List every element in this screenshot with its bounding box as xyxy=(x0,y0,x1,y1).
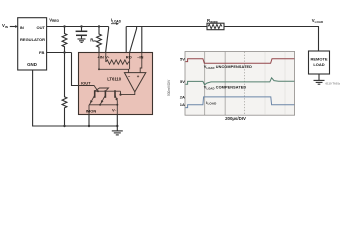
regulator box xyxy=(18,18,47,70)
svg-text:1A: 1A xyxy=(180,102,185,107)
svg-text:GND: GND xyxy=(27,62,37,67)
junction dots on VREG net xyxy=(63,25,118,127)
junction dot +IN internal xyxy=(98,68,100,70)
svg-text:5V: 5V xyxy=(180,57,185,62)
resistor RIN xyxy=(97,27,102,53)
svg-text:VLOAD: VLOAD xyxy=(312,18,324,24)
wire slant to V+ pin xyxy=(106,27,109,53)
scope grid lines xyxy=(205,52,225,115)
svg-text:500mV/DIV: 500mV/DIV xyxy=(167,79,171,96)
ground (earth) below remote load xyxy=(314,80,325,84)
svg-text:VREG: VREG xyxy=(49,17,59,23)
internal emitter rail to V- and IMON xyxy=(89,101,117,115)
transistor Q1 xyxy=(89,90,94,105)
svg-text:VIN: VIN xyxy=(2,23,8,29)
svg-text:200µs/DIV: 200µs/DIV xyxy=(225,116,246,121)
node VIN input arrow xyxy=(10,25,18,28)
resistor R1 feedback top xyxy=(62,27,67,53)
wire FB to IOUT pin xyxy=(72,53,79,86)
internal amp input wires xyxy=(99,53,142,73)
svg-text:V+: V+ xyxy=(105,55,110,60)
internal junction dots xyxy=(97,90,122,106)
wire slant sense tap to RO side xyxy=(130,27,137,53)
remote load box xyxy=(309,51,330,74)
trace ILOAD (blue) xyxy=(185,97,294,108)
svg-text:LOAD: LOAD xyxy=(313,62,324,67)
transistor mirror top wire xyxy=(95,90,121,92)
svg-text:REGULATOR: REGULATOR xyxy=(20,37,45,42)
wire drop to RO pin xyxy=(125,27,127,53)
ILOAD current arrow xyxy=(111,22,119,25)
wire V- pin to ground xyxy=(116,115,118,131)
trace VLOAD uncompensated (red) xyxy=(185,59,294,64)
wire regulator GND down xyxy=(33,70,118,126)
internal sense resistor V+ to RO xyxy=(106,53,130,70)
svg-text:ILOAD: ILOAD xyxy=(206,101,217,106)
svg-text:OUT: OUT xyxy=(37,25,46,30)
svg-text:IOUT: IOUT xyxy=(81,80,91,85)
ground (main) below V- xyxy=(112,131,123,135)
base bridge wire xyxy=(96,88,109,91)
ground below C1 xyxy=(78,39,86,42)
resistor RWIRE (boxed) xyxy=(207,23,224,30)
op-amp triangle A1 xyxy=(124,73,145,92)
svg-text:–IN: –IN xyxy=(137,55,143,60)
transistor Q2 xyxy=(100,90,105,105)
wire FB from regulator xyxy=(47,52,72,54)
wire VLOAD top run xyxy=(126,27,318,52)
svg-text:5V: 5V xyxy=(180,79,185,84)
svg-text:6110 TA01a: 6110 TA01a xyxy=(326,82,340,86)
svg-text:RIN: RIN xyxy=(90,37,96,43)
wire remote load to ground xyxy=(318,74,320,80)
svg-text:RWIRE: RWIRE xyxy=(207,18,218,24)
svg-text:LT6110: LT6110 xyxy=(107,76,122,81)
transistor Q3 xyxy=(115,90,118,101)
scope axis labels xyxy=(180,57,185,107)
resistor R2 feedback bottom xyxy=(62,53,67,127)
svg-text:+: + xyxy=(137,74,140,79)
wire IMON pin to ground rail xyxy=(88,115,90,127)
IOUT pin wire into transistor Q1 xyxy=(79,86,99,92)
svg-text:V–: V– xyxy=(112,108,117,113)
capacitor C1 xyxy=(76,27,88,39)
svg-text:FB: FB xyxy=(39,50,44,55)
svg-text:IMON: IMON xyxy=(86,109,97,114)
scope background xyxy=(185,52,295,116)
wire VREG out (top net) xyxy=(47,26,109,28)
scope trace labels xyxy=(204,65,252,105)
svg-text:RO: RO xyxy=(126,55,132,60)
oscilloscope screenshot xyxy=(167,52,295,122)
svg-text:+IN: +IN xyxy=(97,55,103,60)
IC pin and internal labels xyxy=(81,55,144,114)
amp output wire xyxy=(121,91,135,94)
IC LT6110 block xyxy=(79,53,153,115)
text labels schematic xyxy=(2,17,340,85)
trace VLOAD compensated (green) xyxy=(185,78,294,85)
svg-text:REMOTE: REMOTE xyxy=(310,57,327,62)
svg-text:IN: IN xyxy=(20,25,24,30)
wire -IN pin drop xyxy=(141,27,143,53)
svg-text:2A: 2A xyxy=(180,95,185,100)
